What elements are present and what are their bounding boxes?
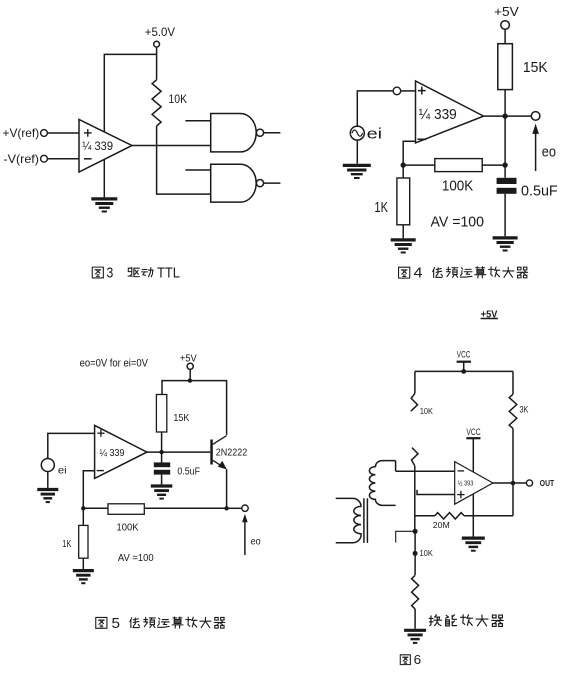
node: OUT junction: [511, 481, 516, 486]
wire feedback to 20M: [415, 515, 435, 517]
svg-text:TTL: TTL: [157, 266, 180, 282]
svg-text:2N2222: 2N2222: [216, 448, 248, 459]
wire node to R6: [83, 507, 108, 509]
wire R4 to ground: [402, 225, 404, 239]
arrow eo (fig5): [244, 522, 246, 555]
op-amp U2 quarter LM339: [416, 81, 484, 143]
resistor R10 3K (zigzag): [509, 394, 517, 428]
svg-text:¼ 339: ¼ 339: [82, 139, 113, 153]
ground (fig3 comparator): [91, 197, 117, 200]
figure 5: low frequency op amp with 2N2222: [37, 353, 260, 632]
resistor R8 10K (upper piece): [411, 393, 418, 411]
figure 6: transducer amplifier: [336, 308, 555, 667]
caption fig5: [96, 617, 107, 628]
wire branch to NAND G2 lower input: [156, 193, 211, 195]
node: eo junction (fig5): [224, 506, 228, 510]
svg-text:eo=0V for ei=0V: eo=0V for ei=0V: [80, 357, 149, 369]
wire - input to feedback node (fig5): [83, 471, 94, 509]
transformer T1 core: [363, 498, 365, 543]
wire 20M to output column: [464, 515, 513, 517]
node: output junction: [502, 113, 507, 118]
wire OUT node down to feedback: [512, 483, 514, 516]
op-amp U4 half LM393: [455, 462, 493, 505]
wire C1 to ground: [504, 194, 506, 237]
svg-text:4: 4: [414, 266, 423, 282]
transistor Q1 2N2222: [210, 440, 213, 465]
figure 4: low frequency op amp: [343, 4, 558, 282]
wire - input to feedback node: [403, 141, 415, 165]
svg-text:+V(ref): +V(ref): [3, 126, 40, 140]
caption fig4: [399, 267, 410, 278]
wire comparator output to eo terminal: [484, 115, 532, 117]
svg-text:eo: eo: [542, 143, 556, 160]
wire comparator V- pin to ground: [103, 159, 105, 197]
op-amp U3 quarter LM339: [95, 425, 147, 478]
wire + input stub: [401, 90, 416, 92]
resistor R9 10K (zigzag): [412, 575, 419, 609]
wire comparator output to Q1 base: [147, 451, 210, 453]
wire comparator output to OUT: [493, 482, 527, 484]
svg-text:eo: eo: [251, 536, 261, 548]
node: +5V rail junction: [188, 378, 192, 382]
wire R9 to ground: [414, 609, 416, 629]
svg-text:10K: 10K: [420, 548, 434, 558]
node: feedback right junction: [502, 162, 507, 167]
svg-text:VCC: VCC: [466, 427, 481, 437]
svg-text:ei: ei: [367, 125, 383, 142]
resistor R4 1K (box): [397, 178, 410, 225]
wire + input to source: [48, 433, 95, 458]
wire R8 down through - input to node: [414, 466, 416, 532]
wire R10 down to OUT node: [512, 429, 514, 484]
resistor R5 15K (box): [156, 395, 166, 433]
wire +5V rail: [162, 381, 227, 435]
wire NAND G1 output: [264, 132, 281, 134]
wire VCC top rail: [415, 370, 513, 372]
terminal +5V (fig5): [187, 363, 193, 369]
svg-text:6: 6: [414, 653, 422, 667]
resistor R11 20M (zigzag): [435, 513, 464, 519]
resistor R7 1K (box): [79, 525, 88, 558]
ground (fig5 R7): [73, 569, 94, 572]
node: bias junction: [413, 529, 418, 534]
wire NAND G2 upper input stub: [185, 169, 210, 171]
ground (fig6 comparator): [462, 536, 485, 539]
wire source to ground (fig5): [47, 472, 49, 488]
svg-text:ei: ei: [58, 464, 67, 476]
wire secondary top lead down to - input: [395, 461, 397, 472]
svg-text:VCC: VCC: [457, 349, 471, 359]
ground (fig5 C2): [151, 484, 173, 487]
wire +5V terminal down to resistor R1: [156, 47, 158, 80]
terminal eo (fig4): [531, 112, 540, 121]
wire - input line from transformer: [396, 470, 455, 472]
svg-text:OUT: OUT: [540, 478, 555, 488]
svg-text:10K: 10K: [169, 92, 188, 106]
NAND gate G1: [211, 114, 257, 152]
resistor R2 15K (box): [498, 44, 513, 90]
wire VCC down through comparator to ground: [472, 438, 474, 536]
node: output junction (fig5): [159, 450, 163, 454]
svg-text:½ 393: ½ 393: [458, 479, 474, 488]
wire R6 to emitter node: [144, 507, 226, 509]
wire V+ rail from comparator to +5V line: [104, 54, 156, 132]
signal source ei (fig4): [350, 126, 364, 140]
wire +5V to rail: [189, 369, 191, 380]
wire source to ground: [356, 140, 358, 164]
svg-text:100K: 100K: [442, 178, 473, 195]
wire rail right corner down to R10: [512, 371, 514, 394]
svg-text:¼ 339: ¼ 339: [100, 447, 125, 459]
svg-text:10K: 10K: [420, 406, 433, 416]
svg-text:0.5uF: 0.5uF: [521, 183, 558, 200]
svg-text:20M: 20M: [433, 520, 450, 530]
capacitor C2 0.5uF (fig5): [161, 452, 163, 463]
svg-text:AV =100: AV =100: [431, 213, 485, 230]
wire NAND G2 output: [264, 182, 281, 184]
wire C2 to ground: [161, 475, 163, 485]
ground (fig5 source): [37, 488, 58, 491]
svg-text:1K: 1K: [374, 199, 388, 216]
wire comparator output to NAND G1 input: [132, 145, 211, 147]
svg-text:5: 5: [112, 616, 121, 632]
wire R5 to output node: [161, 432, 163, 452]
wire node to R7: [82, 508, 84, 525]
svg-text:0.5uF: 0.5uF: [177, 466, 200, 477]
wire R3 to right node: [482, 164, 505, 166]
node: VCC rail junction: [461, 369, 466, 374]
arrow eo (fig4): [535, 133, 537, 171]
resistor R8 10K (lower piece): [412, 448, 419, 466]
wire NAND G1 upper input stub: [185, 120, 210, 122]
wire stub from node (J hook): [396, 531, 415, 542]
caption fig3: [92, 267, 103, 278]
wire rail left corner down: [414, 371, 416, 393]
terminal OUT: [526, 480, 532, 486]
node: lower bias junction: [413, 551, 418, 556]
terminal eo (fig5): [242, 505, 248, 511]
wire +5V to R2: [504, 29, 506, 43]
node: feedback left junction: [401, 162, 406, 167]
svg-text:100K: 100K: [117, 523, 139, 534]
wire +V(ref) to + input: [47, 132, 79, 134]
svg-text:-V(ref): -V(ref): [3, 152, 39, 166]
wire pull-up column down to lower NAND input: [156, 126, 158, 194]
terminal +5.0V: [154, 41, 160, 47]
svg-text:15K: 15K: [173, 412, 189, 424]
wire node to R4: [402, 165, 404, 178]
wire R2 to output node: [504, 90, 506, 117]
wire + input line: [417, 490, 455, 495]
terminal +5V (fig4): [501, 21, 510, 30]
figure 3: comparator driving TTL: [3, 25, 281, 281]
svg-text:3: 3: [107, 266, 114, 282]
wire R7 to ground: [82, 558, 84, 569]
svg-text:AV =100: AV =100: [118, 553, 154, 564]
transformer T1 primary winding: [336, 498, 361, 542]
svg-text:+5V: +5V: [180, 353, 197, 364]
NAND G1 inverter bubble: [256, 129, 263, 136]
svg-text:15K: 15K: [523, 59, 548, 76]
ground (fig4 C1): [493, 236, 518, 239]
signal source ei (fig5): [41, 459, 54, 472]
transformer T1 secondary winding: [369, 461, 395, 506]
ground (fig4 R4): [391, 238, 416, 241]
wire node down to R9: [414, 531, 416, 575]
wire -V(ref) to - input: [47, 158, 79, 160]
resistor R3 100K (box): [435, 159, 482, 172]
caption 换能放大器: [429, 615, 441, 626]
ground (fig4 source): [343, 164, 371, 167]
svg-text:3K: 3K: [520, 404, 529, 414]
node: feedback junction (fig5): [81, 506, 85, 510]
svg-text:+5V: +5V: [494, 4, 519, 19]
resistor R1 10K: [152, 80, 161, 126]
svg-text:¼ 339: ¼ 339: [419, 106, 457, 123]
capacitor C1 0.5uF (fig4): [504, 165, 506, 178]
resistor R6 100K (box): [108, 504, 144, 515]
op-amp U1 quarter LM339: [79, 120, 132, 173]
input coupling circle (fig4): [393, 87, 401, 95]
ground (fig6 bottom): [404, 629, 426, 632]
wire input to source: [357, 91, 393, 126]
wire node to terminal: [227, 507, 242, 509]
NAND gate G2: [211, 164, 257, 202]
wire node to R3: [403, 164, 435, 166]
NAND G2 inverter bubble: [256, 180, 263, 187]
svg-text:+5.0V: +5.0V: [145, 25, 175, 39]
wire output node down to feedback node: [504, 116, 506, 165]
wire Q1 emitter to output node: [226, 469, 228, 508]
caption fig6: [400, 655, 410, 665]
svg-text:1K: 1K: [62, 539, 71, 550]
